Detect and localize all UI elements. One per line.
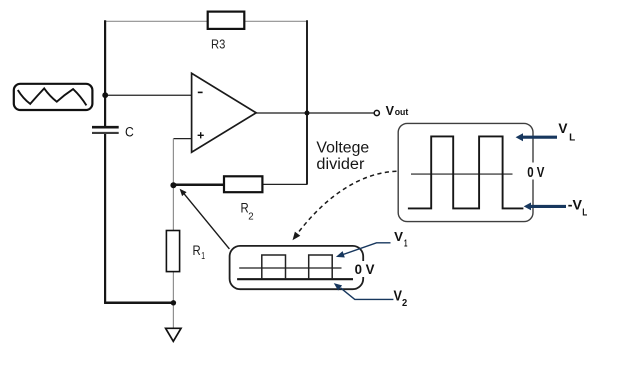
svg-text:L: L — [569, 132, 576, 144]
svg-text:R: R — [193, 243, 201, 258]
svg-text:divider: divider — [316, 156, 364, 173]
svg-text:0 V: 0 V — [355, 262, 375, 278]
svg-text:V: V — [558, 120, 568, 136]
svg-text:V: V — [394, 229, 403, 244]
svg-text:V: V — [386, 103, 395, 118]
svg-text:-V: -V — [568, 197, 583, 213]
svg-text:C: C — [125, 124, 134, 139]
svg-text:1: 1 — [404, 239, 408, 250]
svg-text:L: L — [582, 207, 587, 219]
svg-text:1: 1 — [201, 251, 205, 262]
svg-text:2: 2 — [402, 298, 407, 309]
svg-text:out: out — [395, 107, 409, 117]
svg-text:2: 2 — [248, 211, 254, 222]
svg-text:R3: R3 — [211, 37, 225, 52]
svg-text:0 V: 0 V — [527, 165, 544, 181]
svg-text:Voltege: Voltege — [316, 139, 369, 156]
